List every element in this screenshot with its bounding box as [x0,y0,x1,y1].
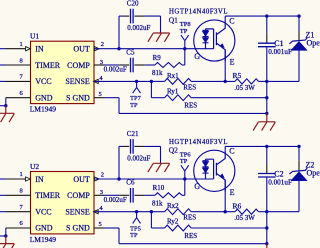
junction OUT/C-cap [117,47,120,50]
resistor Ry2 [165,225,192,231]
wire to C21 [119,145,124,147]
test point TP7 symbol [136,81,138,87]
wire SENSE net [94,80,151,82]
svg-text:Open: Open [307,169,320,178]
svg-text:1: 1 [20,41,23,48]
junction sense-row/right column [265,80,268,83]
junction SENSE/Ry2 [150,210,153,213]
svg-text:C20: C20 [127,0,139,8]
wire C20 drop [118,16,120,49]
wire Rx1 to emitter node [191,80,235,82]
pin 7 wire (VCC) [0,80,6,82]
svg-text:8: 8 [20,57,23,64]
svg-text:Open: Open [307,38,320,47]
wire Z2 to sense node [267,211,299,213]
svg-text:OUT: OUT [73,45,90,54]
resistor R5 [235,79,259,84]
svg-text:81k: 81k [152,69,163,77]
resistor R10 [155,193,182,198]
svg-text:0.002uF: 0.002uF [127,155,150,163]
emitter arrow of Q2 [220,174,224,178]
junction rail/C1 [265,14,268,17]
wire top rail [225,15,299,17]
junction rail/Z2 [297,145,300,148]
svg-text:R5: R5 [233,71,242,80]
svg-text:S GND: S GND [66,224,90,233]
junction OUT/C-cap [117,177,120,180]
protection diode D2 of Q2 [202,168,208,173]
resistor R9 [155,63,182,68]
pin 5 wire (S GND) [94,97,104,99]
capacitor C20 [130,9,132,24]
svg-text:HGTP14N40F3VL: HGTP14N40F3VL [169,139,228,146]
svg-text:R9: R9 [153,54,162,62]
svg-text:Rx2: Rx2 [167,202,179,210]
svg-text:GND: GND [35,93,53,102]
pin 3 wire (COMP) [94,64,104,66]
junction SENSE/Ry1 [150,80,153,83]
svg-text:COMP: COMP [67,191,90,200]
svg-text:U1: U1 [30,32,39,41]
svg-text:TP: TP [130,232,138,239]
pin 1 input arrow [26,47,31,51]
junction emitter/sense [224,80,227,83]
resistor Ry1 [165,95,192,101]
protection diode D1 of Q1 [203,29,209,31]
svg-text:C5: C5 [126,48,135,56]
op-amp U1 (LM1949 IC body) [31,41,95,103]
svg-text:1: 1 [20,171,23,178]
svg-text:81k: 81k [152,199,163,207]
wire OUT net (pin 2 to gate of Q2) [94,178,214,180]
junction GND node [4,104,7,107]
wire right column middle [266,81,268,97]
test point TP6 symbol [184,171,186,179]
wire S GND down [118,228,120,244]
pin 6 wire (GND) [6,227,31,229]
resistor R6 [235,209,259,214]
svg-text:.05 3W: .05 3W [234,214,255,222]
protection diode D1 of Q2 [203,160,209,162]
wire GND to left edge [0,235,6,237]
svg-text:E: E [230,58,235,67]
wire emitter down to sense row [224,180,226,212]
wire right column lower [266,98,268,114]
svg-text:C1: C1 [274,39,283,48]
transistor Q1 HGTP14N40F3VL (IGBT) [194,20,235,61]
junction SENSE/testpoint [135,210,138,213]
wire rail to Z2 [298,146,300,160]
svg-text:0.002uF: 0.002uF [104,66,127,74]
wire S GND down [118,98,120,114]
svg-text:0.001uF: 0.001uF [268,48,292,56]
svg-text:VCC: VCC [35,77,51,86]
svg-text:C: C [229,16,234,25]
svg-text:2: 2 [101,172,104,179]
pin 4 input arrow (SENSE) [94,210,99,214]
svg-text:VCC: VCC [35,207,51,216]
wire emitter down to sense row [224,50,226,82]
wire rail to C2 [266,146,268,163]
junction GND node [4,234,7,237]
junction S GND/right column [265,112,268,115]
capacitor C21 [130,139,132,154]
wire Ry1 to right column [191,97,267,99]
junction Ry2/right column [265,226,268,229]
junction rail/Z1 [297,14,300,17]
zener diode Z1 [291,41,307,50]
wire to Ry2 [151,227,164,229]
junction S GND/right column [265,242,268,245]
ground (chassis) at U1 GND [5,106,7,114]
wire right column middle [266,212,268,228]
test point TP5 symbol [136,212,138,218]
ground (chassis) at U2 GND [5,236,7,244]
svg-text:TIMER: TIMER [35,191,61,200]
emitter arrow of Q1 [220,44,224,48]
pin 5 wire (S GND) [94,227,104,229]
svg-text:.05 3W: .05 3W [234,84,255,92]
pin 8 wire (TIMER) [0,194,6,196]
junction SENSE/testpoint [135,80,138,83]
svg-text:HGTP14N40F3VL: HGTP14N40F3VL [169,9,228,16]
capacitor C2 [258,173,276,175]
wire Z1 down [298,50,300,81]
junction sense-row/right column [265,210,268,213]
pin 6 wire (GND) [6,97,31,99]
svg-text:R6: R6 [233,201,242,210]
svg-text:C21: C21 [127,130,139,138]
wire rail to Z1 [298,16,300,30]
wire SENSE to Rx2 [151,211,164,213]
svg-text:IN: IN [35,45,44,54]
svg-text:G: G [194,52,200,61]
svg-text:LM1949: LM1949 [30,235,57,244]
svg-text:5: 5 [99,91,102,98]
svg-text:GND: GND [35,224,53,233]
pin 3 wire (COMP) [94,194,104,196]
capacitor C5 [130,58,132,73]
svg-text:0.002uF: 0.002uF [127,24,150,32]
wire GND down-left [5,228,7,236]
pin 1 wire (IN) [0,178,6,180]
ground (chassis) at S GND bus [266,113,268,121]
svg-text:COMP: COMP [67,61,90,70]
svg-text:0.002uF: 0.002uF [104,196,127,204]
svg-text:E: E [230,188,235,197]
svg-text:IN: IN [35,175,44,184]
wire SENSE to Rx1 [151,80,164,82]
wire OUT net (pin 2 to gate of Q1) [94,48,214,50]
wire C2 down [266,177,268,212]
svg-text:0.001uF: 0.001uF [268,179,292,187]
svg-text:C2: C2 [274,170,283,179]
pin 2 output arrow [94,47,99,51]
wire collector to top rail [224,146,226,150]
zener diode Z2 [291,172,307,181]
svg-text:TP: TP [180,158,188,165]
wire collector to top rail [224,16,226,20]
svg-text:S GND: S GND [66,93,90,102]
wire C5 to R9 [134,64,144,66]
test point TP8 symbol [184,41,186,49]
svg-text:8: 8 [20,188,23,195]
wire Rx2 to emitter node [191,211,235,213]
svg-text:LM1949: LM1949 [30,105,57,114]
svg-text:Ry1: Ry1 [167,87,179,95]
pin 1 wire (IN) [0,48,6,50]
svg-text:RES: RES [183,214,196,222]
wire C1 down [266,47,268,82]
junction OUT/R/testpoint [183,47,186,50]
resistor Rx1 [165,79,192,85]
pin 8 wire (TIMER) [0,64,6,66]
junction emitter/sense [224,210,227,213]
svg-text:SENSE: SENSE [65,207,90,216]
wire Z2 down [298,181,300,212]
svg-text:OUT: OUT [73,175,90,184]
op-amp U2 (LM1949 IC body) [31,172,95,234]
svg-text:Q2: Q2 [169,146,178,155]
junction Ry1/right column [265,96,268,99]
svg-text:RES: RES [184,232,197,240]
svg-text:C: C [229,147,234,156]
wire Ry2 to right column [191,227,267,229]
resistor Rx2 [165,209,192,215]
ground (chassis) at S GND bus [266,244,268,248]
wire GND to left edge [0,105,6,107]
wire GND down-left [5,98,7,106]
wire S GND bus [119,243,267,245]
svg-text:TIMER: TIMER [35,61,61,70]
transistor Q2 HGTP14N40F3VL (IGBT) [194,150,235,191]
svg-text:G: G [194,182,200,191]
wire C6 to R10 [134,194,144,196]
svg-text:SENSE: SENSE [65,77,90,86]
svg-text:R10: R10 [153,184,165,192]
svg-text:5: 5 [99,221,102,228]
wire R9 up to OUT net [182,64,185,66]
wire R5 to right column [259,80,267,82]
protection diode D2 of Q1 [202,38,208,43]
ground (chassis) at C21 [153,162,170,164]
pin 7 wire (VCC) [0,211,6,213]
capacitor C1 [258,42,276,44]
wire R6 to right column [259,211,267,213]
svg-text:U2: U2 [30,162,39,171]
wire top rail [225,145,299,147]
junction OUT/R/testpoint [183,177,186,180]
svg-text:2: 2 [101,41,104,48]
capacitor C6 [130,188,132,203]
wire C21 to ground [134,145,144,147]
pin 1 input arrow [26,177,31,181]
wire to Ry1 [151,97,164,99]
wire Ry2 drop [150,212,152,228]
wire R10 up to OUT net [182,194,185,196]
wire Ry1 drop [150,81,152,97]
wire Z1 to sense node [267,80,299,82]
ground (chassis) at C20 [153,32,170,34]
wire right column lower [266,228,268,244]
svg-text:Q1: Q1 [169,15,178,24]
svg-text:TP: TP [130,102,138,109]
svg-text:Ry2: Ry2 [167,218,179,226]
wire C21 drop [118,146,120,179]
wire rail to C1 [266,16,268,33]
svg-text:Rx1: Rx1 [167,72,179,80]
wire SENSE net [94,211,151,213]
pin 2 output arrow [94,177,99,181]
svg-text:TP: TP [180,28,188,35]
svg-text:C6: C6 [126,179,135,187]
wire S GND bus [119,112,267,114]
svg-text:RES: RES [183,83,196,91]
pin 4 input arrow (SENSE) [94,79,99,83]
wire C20 to ground [134,15,144,17]
junction rail/C2 [265,145,268,148]
svg-text:RES: RES [184,102,197,110]
wire to C20 [119,15,124,17]
